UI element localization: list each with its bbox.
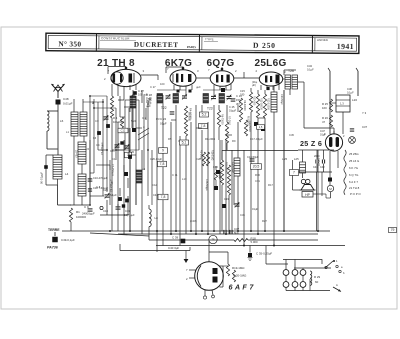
IF transformer T22 (157, 94, 163, 104)
svg-text:C 39: C 39 (172, 236, 178, 240)
svg-text:25L6G: 25L6G (254, 58, 286, 69)
svg-text:PA736: PA736 (47, 246, 59, 250)
wire V2-V3 coupling (196, 77, 210, 79)
svg-text:R 20-1MΩ: R 20-1MΩ (233, 274, 247, 278)
resistor R4 vert (184, 106, 187, 136)
IF transformer T23 (203, 94, 209, 104)
title divider 1 (95, 34, 97, 51)
svg-text:HP: HP (305, 193, 310, 197)
svg-text:C47: C47 (320, 129, 325, 133)
svg-text:100: 100 (113, 120, 118, 124)
svg-text:R8-2MΩ: R8-2MΩ (205, 137, 215, 141)
svg-text:C 27: C 27 (150, 85, 156, 89)
svg-text:C49-0,1µF: C49-0,1µF (61, 238, 75, 242)
box 3 (125, 152, 132, 158)
svg-text:8µF: 8µF (234, 231, 239, 235)
svg-text:C19: C19 (103, 209, 108, 213)
wire L4 down (57, 185, 59, 205)
svg-text:C 11: C 11 (172, 173, 178, 177)
resistor R5b (202, 152, 205, 166)
svg-text:9: 9 (162, 149, 164, 153)
resistor R29 coil (310, 271, 312, 285)
svg-text:T26: T26 (288, 69, 294, 73)
svg-text:L1: L1 (66, 130, 69, 134)
svg-text:0,1µF: 0,1µF (347, 90, 354, 94)
excitation M13 (327, 185, 333, 191)
box 5,1 (180, 140, 189, 145)
tube V6 target electrode (197, 266, 201, 287)
tube V2 6K7G envelope (170, 70, 196, 86)
trimmer C23b (104, 116, 109, 118)
wire coil bank (73, 136, 75, 205)
grid cap V2 (182, 67, 185, 70)
capacitor C27 (133, 91, 137, 95)
wire T26 top (283, 70, 285, 75)
wire L6 down (46, 131, 48, 149)
box 20.5 (251, 164, 262, 170)
wires switch cluster (100, 214, 128, 216)
svg-text:CONSTRUCTEUR: CONSTRUCTEUR (101, 36, 130, 40)
svg-text:C 35-0,25µF: C 35-0,25µF (256, 252, 272, 256)
svg-text:L6: L6 (60, 119, 64, 123)
svg-text:C34: C34 (240, 213, 245, 217)
svg-text:25 Z6G: 25 Z6G (349, 152, 359, 156)
svg-text:µF): µF) (252, 83, 256, 87)
title block outer frame (46, 33, 359, 53)
svg-text:7,8: 7,8 (160, 162, 165, 166)
resistor R5c (206, 152, 209, 166)
svg-text:C20: C20 (103, 188, 108, 192)
svg-text:R 4: R 4 (113, 116, 118, 120)
capacitor C10 (88, 178, 93, 180)
svg-text:R10-5000: R10-5000 (248, 121, 251, 132)
wire V3-V4 coupling (234, 77, 260, 79)
box 7.8 (158, 161, 167, 167)
wire osc (141, 90, 143, 103)
svg-text:D 250: D 250 (253, 41, 276, 50)
svg-text:5,1: 5,1 (182, 141, 187, 145)
svg-text:R27: R27 (262, 219, 267, 223)
tube V5 25Z6 envelope (325, 134, 342, 151)
svg-text:Y 3: Y 3 (362, 111, 367, 115)
svg-text:C17-0,1µF: C17-0,1µF (250, 137, 263, 141)
cluster vertical wires (89, 96, 91, 205)
capacitor C21 pad (118, 197, 122, 201)
wire R1 bus (70, 222, 72, 231)
wire L8 (148, 205, 150, 209)
svg-text:C29-50µF: C29-50µF (232, 162, 235, 174)
resistor R25 (329, 99, 332, 112)
svg-text:100 µµF: 100 µµF (138, 93, 148, 97)
svg-text:7: 7 (293, 171, 295, 175)
filament brace (344, 150, 346, 195)
svg-text:L5: L5 (86, 147, 89, 151)
svg-text:30µµF: 30µµF (218, 173, 221, 180)
grid cap V1 (125, 67, 128, 70)
wire mid col (221, 185, 223, 231)
svg-text:C5-470µµF: C5-470µµF (101, 142, 104, 155)
wires filter (302, 150, 304, 162)
wire pu drop1 (285, 260, 287, 270)
capacitor C14 (231, 98, 236, 100)
vertical drop wires (111, 150, 113, 231)
svg-text:C18-50µF: C18-50µF (247, 155, 259, 159)
svg-text:21 TH 8: 21 TH 8 (97, 58, 135, 69)
wire terminal bottom (285, 287, 287, 290)
svg-text:C45: C45 (289, 133, 294, 137)
svg-text:5,1µF: 5,1µF (110, 193, 117, 197)
speaker HP (301, 185, 314, 191)
svg-text:1,5: 1,5 (259, 125, 263, 129)
svg-text:C42: C42 (320, 166, 325, 169)
capacitor C18 (250, 158, 255, 160)
svg-text:µµF: µµF (147, 102, 152, 106)
svg-text:C33: C33 (224, 197, 229, 201)
tube V2 electrodes (176, 74, 178, 83)
resistor R11 (256, 94, 259, 118)
bus y240 (149, 239, 234, 241)
trimmer C20 (105, 194, 110, 196)
junction dots (156, 230, 158, 232)
tube V3 electrodes (216, 75, 218, 83)
svg-text:ANNEE: ANNEE (317, 38, 328, 42)
svg-text:01µF: 01µF (160, 122, 167, 126)
svg-text:180: 180 (240, 93, 245, 97)
svg-text:N° 350: N° 350 (58, 39, 81, 48)
circle T5 (209, 235, 217, 243)
svg-text:P O P O: P O P O (350, 192, 361, 196)
svg-text:6 K 7G: 6 K 7G (349, 166, 359, 170)
grid cap V3 (221, 68, 224, 71)
svg-text:47: 47 (322, 120, 326, 124)
svg-text:R9-30000: R9-30000 (243, 100, 246, 111)
svg-text:7,8: 7,8 (201, 124, 206, 128)
resistor R1 (69, 208, 72, 222)
svg-text:C48: C48 (63, 97, 69, 101)
tube V4 electrodes (265, 76, 267, 83)
dial lamp (349, 137, 356, 144)
svg-text:6 A F 7: 6 A F 7 (349, 180, 358, 184)
svg-text:T23: T23 (207, 107, 213, 111)
resistor R10 (249, 92, 252, 112)
wire feed connector (265, 246, 267, 265)
coil L9 (136, 170, 142, 183)
svg-text:R5-2MΩ: R5-2MΩ (200, 150, 203, 159)
svg-text:C15: C15 (240, 89, 245, 93)
tube V5 pins (329, 151, 331, 162)
socket blobs V2 (177, 90, 180, 93)
coil L4 frame aerial (53, 155, 62, 179)
arrow out (333, 287, 341, 292)
terminal stems (285, 275, 287, 281)
wire pickup loop3 (294, 263, 331, 265)
tube V4 25L6G envelope (259, 72, 282, 86)
ballast box L20 (336, 95, 350, 112)
resistor R19 (226, 264, 229, 276)
resistor R20 (232, 270, 235, 282)
svg-text:C21: C21 (110, 150, 115, 153)
capacitor C22 pad (125, 199, 129, 203)
mains lead 1 (329, 71, 331, 134)
tube V3 6Q7G envelope (210, 71, 234, 87)
svg-text:L25: L25 (294, 157, 299, 161)
capacitor C35 (248, 253, 252, 257)
svg-text:01µF: 01µF (320, 133, 326, 137)
svg-text:C 8: C 8 (96, 185, 101, 189)
terminals PU top (283, 270, 289, 276)
wire V4-T26 (283, 78, 285, 80)
svg-text:5,2: 5,2 (202, 113, 207, 117)
svg-text:R5: R5 (168, 137, 172, 141)
capacitor C11b (132, 128, 136, 132)
coil choke L12 (271, 92, 277, 112)
box 1,5 (257, 125, 265, 130)
svg-text:µµF: µµF (196, 85, 201, 89)
svg-text:C46-50µµF: C46-50µµF (205, 179, 208, 192)
title block inner frame (48, 35, 357, 51)
svg-text:5.000: 5.000 (251, 240, 258, 244)
resistor R4b (120, 117, 123, 128)
svg-text:R7-2MΩ: R7-2MΩ (228, 116, 231, 125)
wire mains join (342, 112, 344, 134)
box 79 (389, 228, 397, 233)
resistor R10b (244, 120, 247, 136)
svg-text:L13: L13 (182, 177, 187, 181)
svg-text:C38: C38 (347, 87, 352, 91)
coil L25 filter choke (300, 162, 306, 173)
svg-text:60: 60 (315, 280, 319, 284)
svg-text:C41: C41 (313, 166, 318, 169)
tube V2 pins (173, 85, 175, 90)
tube V3 pins (213, 85, 215, 90)
box 7.8b (199, 124, 208, 129)
svg-text:R16-1MΩ: R16-1MΩ (211, 150, 214, 161)
coil L14 (234, 158, 240, 176)
svg-text:0,1µF: 0,1µF (307, 68, 314, 72)
svg-text:C44: C44 (153, 193, 158, 197)
wire grid top V1 (108, 66, 126, 68)
capacitor C33b (120, 141, 123, 144)
title divider 3 (311, 36, 313, 53)
svg-text:C3: C3 (95, 119, 99, 123)
svg-text:R1: R1 (76, 210, 80, 214)
svg-text:R6-70000: R6-70000 (221, 114, 224, 125)
svg-text:C 25: C 25 (229, 105, 235, 109)
capacitor C16 (254, 122, 258, 126)
capacitor C39 (181, 239, 186, 244)
mains lead 2 (357, 71, 359, 96)
svg-text:L20: L20 (352, 98, 357, 102)
svg-text:C12: C12 (152, 183, 157, 187)
capacitor C41 C42 (315, 160, 317, 164)
resistor R26 (329, 115, 332, 127)
svg-text:160: 160 (322, 106, 327, 110)
link wires (124, 106, 130, 108)
cluster link wires (90, 95, 107, 97)
svg-text:C7-150µµF: C7-150µµF (111, 164, 114, 177)
svg-text:21 TH 8: 21 TH 8 (349, 186, 360, 190)
title divider 2 (198, 35, 200, 52)
capacitor C9 (88, 208, 93, 210)
svg-text:DUCRETET: DUCRETET (134, 41, 179, 49)
svg-text:TERRE: TERRE (48, 228, 60, 232)
terminals PU bottom (283, 282, 289, 288)
svg-text:PARIS: PARIS (187, 45, 196, 49)
wires speaker (329, 172, 331, 178)
junction dots 2 (89, 95, 91, 97)
svg-text:C 9: C 9 (84, 205, 89, 209)
svg-text:R11-50000: R11-50000 (260, 98, 263, 110)
box 9 (159, 148, 168, 154)
svg-text:C31: C31 (255, 179, 260, 183)
svg-text:C43: C43 (307, 64, 312, 68)
svg-text:C 2: C 2 (142, 116, 147, 120)
box 5.2 (200, 112, 209, 117)
svg-text:C12: C12 (121, 129, 126, 133)
svg-text:1,3: 1,3 (340, 102, 344, 106)
capacitor plate blob (221, 88, 225, 92)
ground arrow mid (185, 251, 187, 260)
svg-text:R10-300: R10-300 (253, 96, 256, 106)
resistor R13 (220, 160, 223, 185)
coil L6 (47, 111, 49, 131)
coil L7b (80, 112, 87, 136)
svg-text:C 28: C 28 (146, 98, 152, 102)
resistor R2 (110, 96, 113, 118)
capacitor C32b (128, 155, 132, 159)
wire pu drop3 (302, 268, 304, 270)
svg-text:7,8: 7,8 (161, 195, 166, 199)
svg-text:L 25: L 25 (282, 157, 288, 161)
svg-text:A: A (336, 283, 338, 287)
svg-text:R16: R16 (255, 173, 260, 177)
svg-text:L8: L8 (155, 216, 159, 220)
svg-text:T22: T22 (161, 106, 167, 110)
svg-text:100: 100 (160, 82, 165, 86)
capacitor C37 C36 electrolytic (223, 230, 225, 234)
capacitor C31b (97, 131, 101, 135)
wire T26 down (283, 90, 285, 231)
svg-text:TYPE: TYPE (205, 37, 214, 41)
svg-text:25 Z 6: 25 Z 6 (300, 139, 322, 148)
wire terre slope (61, 231, 63, 236)
trimmer C39r (350, 128, 354, 130)
wire V1-V2 coupling (141, 74, 158, 76)
svg-text:C10-470µµF: C10-470µµF (93, 176, 108, 180)
wire to 6AF7 (208, 241, 210, 262)
svg-text:24000µµF: 24000µµF (82, 212, 95, 216)
box T8 (158, 194, 168, 200)
svg-text:00-51µµF: 00-51µµF (40, 172, 44, 184)
trimmer mid (235, 203, 240, 205)
capacitor C24 (170, 111, 175, 113)
transformer T26 (285, 75, 291, 89)
tube V6 pins (189, 269, 196, 271)
tube V1 pins (111, 84, 113, 90)
svg-text:50.000Ω: 50.000Ω (188, 112, 191, 121)
wire ant-L6 (57, 105, 59, 156)
capacitor C19 (116, 206, 121, 208)
svg-text:L4: L4 (65, 172, 69, 176)
svg-text:R 29: R 29 (314, 275, 320, 279)
svg-text:R19-1MΩ: R19-1MΩ (232, 266, 245, 270)
tube V6 6AF7 envelope (195, 262, 224, 291)
svg-text:C37: C37 (362, 125, 368, 129)
coil L2 (78, 174, 86, 196)
resistor R9b (239, 98, 242, 122)
svg-text:20,5: 20,5 (253, 165, 260, 169)
tube V1 electrodes (113, 74, 116, 83)
resistor R18 (234, 239, 248, 242)
wire 6af7 top (223, 265, 228, 267)
label HP box (302, 192, 313, 198)
svg-text:C1: C1 (112, 157, 116, 161)
capacitor C30 (216, 170, 220, 174)
tube V1 21TH8 envelope (111, 69, 141, 86)
svg-text:1941: 1941 (337, 42, 354, 51)
tube V5 electrodes (329, 137, 332, 147)
coil L7a (71, 112, 78, 136)
svg-text:01µF: 01µF (252, 207, 259, 211)
svg-text:C 27: C 27 (138, 89, 144, 93)
trimmer C22 (125, 145, 130, 147)
coil L10 osc (130, 96, 136, 108)
svg-text:C30-50µF: C30-50µF (280, 94, 283, 105)
capacitor C30b (106, 124, 110, 128)
wire diag osc (138, 128, 149, 135)
antenna (52, 84, 65, 92)
svg-text:25 L6 G: 25 L6 G (349, 159, 360, 163)
box C12 (118, 128, 128, 133)
svg-text:6Q7G: 6Q7G (207, 58, 235, 69)
svg-text:01µµF: 01µµF (229, 110, 237, 113)
svg-text:R9: R9 (232, 139, 236, 143)
tube V4 pins (260, 85, 262, 90)
svg-text:C43-01: C43-01 (317, 158, 320, 167)
resistor R12 (263, 94, 266, 118)
wire pickup loop1 (283, 260, 322, 265)
resistor R14 (227, 165, 230, 195)
capacitor C48 ant (56, 100, 61, 105)
switch S bottomright (325, 261, 333, 268)
svg-text:100000: 100000 (76, 215, 86, 219)
bus earth y231 (62, 230, 330, 232)
svg-text:R17: R17 (268, 183, 273, 187)
svg-text:6 Q 7G: 6 Q 7G (349, 173, 359, 177)
bus y250 (120, 250, 190, 252)
svg-text:0,01µF: 0,01µF (63, 102, 73, 106)
svg-text:R3: R3 (156, 117, 160, 121)
resistor R17b (214, 170, 217, 180)
coil L8 (149, 209, 151, 227)
box mid right (290, 170, 299, 176)
svg-text:79: 79 (391, 228, 395, 232)
svg-text:6 A F 7: 6 A F 7 (229, 283, 255, 292)
trimmer C21 (115, 144, 120, 146)
bus y245 (156, 245, 345, 247)
svg-text:25-450: 25-450 (75, 150, 78, 158)
bus y234 (118, 233, 318, 235)
wire pu drop2 (294, 264, 296, 270)
wire pickup loop2 (286, 260, 326, 270)
tube V6 plates (213, 268, 218, 274)
socket blobs V4 (266, 87, 269, 90)
svg-text:C30: C30 (213, 165, 218, 169)
svg-text:R15-5000: R15-5000 (225, 162, 228, 174)
svg-text:(C46): (C46) (190, 219, 197, 223)
svg-text:C40 3µF: C40 3µF (168, 246, 179, 250)
resistor R7 (225, 122, 228, 143)
